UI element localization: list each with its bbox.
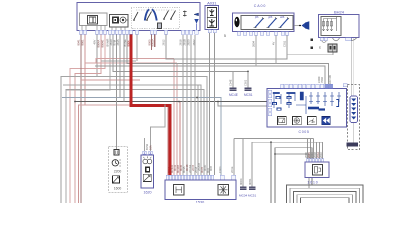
svg-text:16V 0B: 16V 0B [328,75,332,84]
svg-text:C04E: C04E [229,79,233,86]
svg-text:2618: 2618 [179,39,183,45]
BH24 fuse element 1 [322,19,324,32]
svg-text:1600: 1600 [114,187,122,191]
wire gray pin113 y71.4 to MC stubs [113,34,248,71]
loop wire 1 [287,185,364,203]
switch lever 2 [147,12,152,20]
dark connector box below [347,143,359,147]
wire gray x275 loop feed [275,148,312,203]
svg-text:2620: 2620 [187,39,191,45]
wire gray pin97 to left bundle [61,34,97,203]
wire pink y63 [85,63,177,175]
svg-text:9004: 9004 [127,40,131,46]
wire gray y66 long to BSI pin x321 [95,66,325,84]
svg-text:C040: C040 [317,76,321,83]
svg-text:2615: 2615 [116,39,120,45]
wire gray pin124 down to y99 [123,34,125,102]
wire gray 1010 pin feeds from y138.5 [308,139,314,159]
icon clock glyph [112,160,118,166]
BH24 inner box [321,17,341,36]
washer pump unit 1620 [141,155,154,188]
BH24 fuse element 3 [330,19,332,32]
pins below box2 [112,27,125,30]
1010 glyph [313,165,323,176]
thick red wire main [131,34,170,175]
box2 motor circle glyph [120,17,126,23]
1530 pin row [166,175,236,179]
dark lock icon [145,167,150,173]
connector box inside CV00 left [80,13,108,26]
BSI icon box wiper2 [308,116,317,124]
blue inline connector glyph [302,23,306,28]
WIRES-LEFT [61,33,354,203]
svg-text:9041: 9041 [77,39,81,45]
svg-text:MC04: MC04 [239,193,248,197]
svg-text:BVNE: BVNE [123,39,127,47]
wire gray CA00 pin x256 down [255,35,257,66]
svg-text:MC51: MC51 [248,193,257,197]
svg-text:C005: C005 [299,130,310,134]
svg-text:7040: 7040 [320,77,324,83]
svg-text:BCW: BCW [145,143,149,150]
wire maroon stub x151.5 [151,34,153,50]
BH24 lower component box [328,44,337,52]
CA00 switch contact 2 [268,19,276,28]
wire gray short y61 [101,60,136,62]
svg-text:80B: 80B [209,166,213,171]
BH24 pin ticks [320,38,351,41]
wire pink x168 drop [168,102,180,176]
CA00 switch contact 1 [255,19,263,28]
unit CV00 combination switch outer box [77,3,200,31]
A031 top cell arrow glyph [210,9,215,16]
wire gray y89.5 to 1530 drop x204 [66,90,205,176]
switch linkage dashes [136,9,174,11]
relay box BH24 [319,15,360,38]
connector pair glyph [183,11,187,17]
svg-text:2200: 2200 [114,169,122,173]
BSI icon box washer [293,116,302,124]
svg-text:g06: g06 [268,15,273,19]
svg-text:C001: C001 [218,166,222,173]
loop wire 2 [290,188,360,203]
wire pink pin105 to left bundle [70,34,105,203]
svg-text:5: 5 [224,34,226,38]
svg-text:a06: a06 [280,15,285,19]
wire labels below CV00 [77,39,197,48]
BSI interior circuit [273,92,342,114]
wire pink y101 to red drop x180 [79,104,169,106]
pump icon [143,174,151,181]
svg-text:9004E: 9004E [101,40,105,48]
fuse unit A031 [205,6,219,30]
NESTED LOOP WIRES BOTTOM RIGHT [287,185,364,203]
wire gray bundle x195 [194,35,196,175]
wire gray pin127 y63.5 long to BSI pin x331 [127,34,329,84]
wire gray pin120 down to long line [119,34,121,98]
svg-text:E: E [319,45,321,49]
wire gray y85 [63,85,201,175]
svg-text:j06: j06 [254,15,259,19]
switch lever 1 [134,12,138,20]
junction dots [74,71,276,155]
wire pink short y58.5 [96,59,174,176]
wire pink y80 to red drop x177 [81,79,140,81]
svg-text:1620: 1620 [144,190,152,194]
component box2 motor [110,15,129,28]
connector glyph in box1 [88,16,98,25]
wire pink pin101 to left bundle [75,34,101,203]
wire gray washer pump pin [144,138,146,151]
wire gray y76.5 to 1530 drop x207 [61,77,207,176]
small connector glyph top [114,150,119,156]
wire gray x234 extra 1530 pin [233,139,235,176]
wire gray MC4E stub vertical [232,71,234,87]
box2 connector glyph dark [112,17,119,24]
wire gray pin110 to left bundle [66,34,110,203]
dashed unit 2200/1600 [109,147,128,192]
wire gray A031 pin x209.5 down to 1530 [209,33,211,175]
arrow glyphs stack [351,99,356,120]
blue arc right [152,9,157,20]
loop wire 4 [297,195,353,203]
washer pump 1620 pins [143,151,146,154]
1530 glyph right cross [218,185,229,196]
CA00 pin ticks [237,32,288,36]
wire gray bundle x191 [190,35,192,175]
wire gray pin137 stub [136,34,138,61]
wire gray BH24 pins down double [351,38,353,97]
wire gray BH24 pin2 down [352,38,354,97]
wire gray pin166 to CA00 via y59 [166,34,287,59]
wire gray y138.5 route to 1010 [234,138,314,140]
wire pink pin85 to left bundle [79,34,86,203]
svg-text:A031: A031 [207,1,217,6]
svg-text:1530: 1530 [196,200,204,203]
blue arc left [145,9,150,20]
blue left arrow glyph [194,13,199,16]
wire maroon pin81 straight down [80,34,82,203]
svg-text:MC51: MC51 [244,93,253,97]
svg-text:16A: 16A [149,145,153,150]
wire from down arrow to pin [196,24,198,31]
BSI left pin boxes [268,90,271,116]
CA00 key oval [234,17,239,27]
BH24 side labels [311,39,314,42]
BSI SECTION [229,75,348,134]
BOXES [77,1,359,52]
wire CA00 to connector [294,25,301,27]
BSI icon box blue arrows [322,116,331,124]
BSI top wire labels [317,75,332,84]
wire gray y154 loop feed [275,154,309,188]
A031 bottom cell arrow glyph [209,19,215,26]
svg-text:M004: M004 [239,178,243,185]
CA00 contact labels [254,15,285,19]
CA00 switch contact 3 [280,19,288,28]
multi arrow connector body [350,96,358,123]
connector unit 1530 box [165,180,236,200]
mass MC04 bottom stub [240,186,247,190]
BOTTOM SECTION [109,143,154,194]
mass MC51 stub box [245,88,252,92]
BH24 pin loop arcs [322,41,327,43]
svg-text:BH24: BH24 [334,10,345,15]
loop wire 3 [294,191,357,203]
wire gray bundle x183 [182,35,184,175]
wire gray y103 from bundle to BSI left pin [218,102,269,107]
wire gray y99 to x218 corner to BSI left pin [75,101,269,103]
pin tick marks CV00 [79,30,198,34]
wire gray pin117 down to dashed box 1600 [116,34,118,150]
connector unit 1010 box [305,162,329,178]
svg-text:1010: 1010 [307,181,318,185]
CA00 wire labels [252,40,287,47]
svg-text:MC4E: MC4E [229,93,238,97]
wire gray MC04 bottom stub [242,139,244,187]
svg-text:C011: C011 [283,40,287,47]
BSI box C005 [267,88,347,127]
wire gray x165 crossing [151,105,166,152]
BH24 fuse element 2 [326,19,328,32]
1010 wire labels [304,152,323,158]
svg-text:9004A: 9004A [97,40,101,48]
svg-text:M051: M051 [248,178,252,185]
switch lever 4 [171,11,176,19]
small resistor block under dashed box [158,23,162,29]
wire gray y142.2 route to 1010 [252,141,323,143]
A031 pin ticks [208,30,211,33]
svg-text:9005A: 9005A [151,39,155,47]
svg-text:4V: 4V [272,42,276,45]
1010 pin row [306,159,324,162]
svg-text:260C: 260C [319,152,323,158]
dashed switch box [131,7,179,29]
svg-text:2612: 2612 [162,39,166,45]
wire gray bundle x187 [186,35,188,175]
svg-text:261B: 261B [183,39,187,45]
dashed frame [348,85,360,150]
switch lever 3 [164,11,169,19]
svg-text:C051: C051 [244,79,248,86]
1530 glyph left [174,185,185,196]
BH24 internal wire [324,17,337,32]
BSI top pin boxes [281,84,348,89]
icon pump glyph [112,176,119,183]
wire gray A031 pin x214.5 down to 1530 [214,33,216,175]
svg-text:2610: 2610 [109,39,113,45]
ignition switch CA00 box [233,13,295,32]
wire gray y97.5 long to x221 drop [62,98,221,176]
svg-text:261E: 261E [230,166,234,173]
wire gray MC51 bottom stub [251,142,253,186]
CONNECTOR 1010 SECTION [304,152,329,185]
CONNECTOR 1530 SECTION [165,163,257,205]
svg-text:CA00: CA00 [254,4,267,8]
wire pink y73.5 to red drop x174 [154,34,156,47]
wire gray 1010 pin feeds from y142.2 [317,142,323,158]
pin row of CV00 [80,30,198,34]
1530 wire labels [167,163,234,173]
wire gray MC51 stub vertical [247,71,249,87]
svg-text:2604: 2604 [252,41,256,47]
BSI icon box wiper1 [278,116,287,124]
wire gray x271 down to bottom edge [270,142,272,203]
svg-text:40V: 40V [93,40,97,45]
CA00 inner box [241,16,293,30]
RIGHT DASHED CONNECTOR COLUMN [347,85,360,150]
mass MC51 bottom stub [249,186,256,190]
wire gray y54.7 BH24 drop [287,52,333,55]
svg-text:2622: 2622 [192,39,196,45]
wire gray CA00 pin x276 down [275,35,277,64]
mass MC4E stub box [230,88,237,92]
BH24 inner arc [346,38,357,41]
loop wire 5 [301,198,350,203]
blue down arrow glyph [194,19,198,24]
wire maroon stub x154.5 [154,34,156,47]
pins below box1 [82,26,105,31]
wire gray below arrow connector [353,123,355,143]
wire gray bundle x198 [197,85,199,175]
svg-text:9001: 9001 [81,39,85,45]
washer spray icon [143,159,148,164]
